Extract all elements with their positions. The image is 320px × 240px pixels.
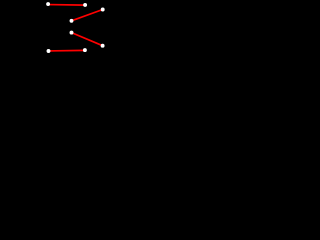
wire edge D-C [72,10,103,21]
node A [46,2,50,6]
node F [47,49,51,53]
node G [101,44,105,48]
node B [83,3,87,7]
node H [83,48,87,52]
wire edge E-G [72,33,103,46]
wire edge F-H [49,49,85,52]
node D [70,19,74,23]
background [0,0,134,77]
node C [101,8,105,12]
node E [70,31,74,35]
wire edge A-B [48,4,85,7]
